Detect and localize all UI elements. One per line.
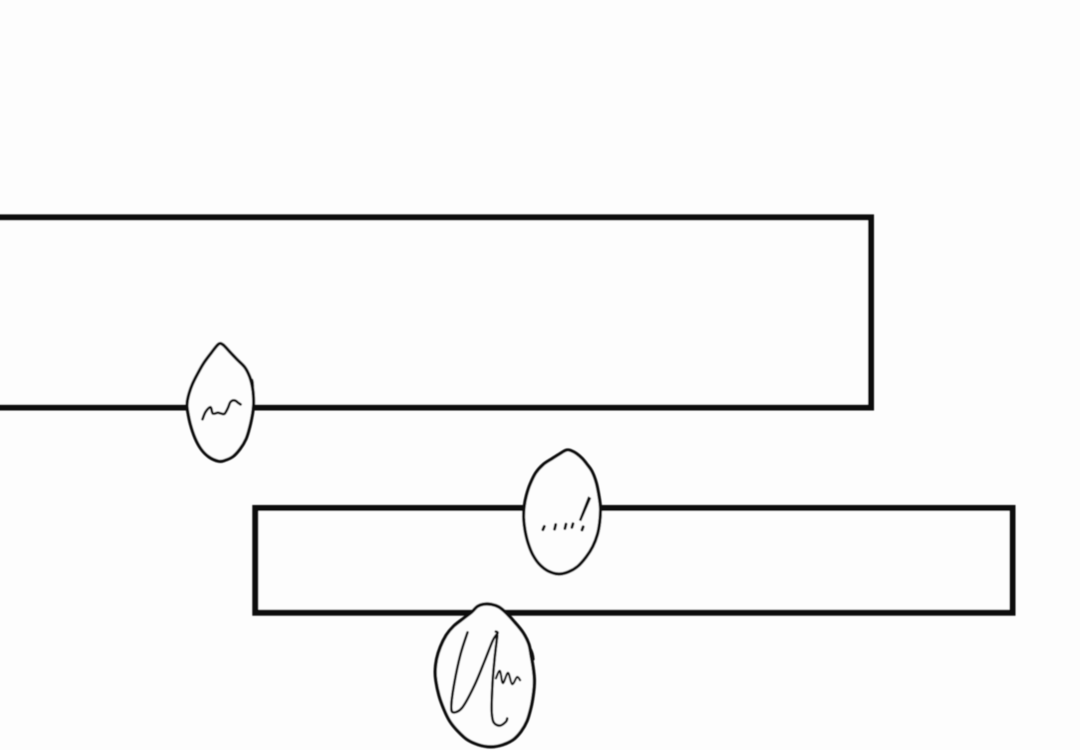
pen hook on right side of bubble B3	[530, 650, 533, 660]
text "....!" inside B2 : four dots	[543, 524, 573, 530]
panel 1 (top comic panel, left edge off-canvas)	[0, 217, 871, 407]
pen hook on right side of bubble B1	[251, 380, 254, 390]
speech bubble B2 ("....!" bubble over panel 2 top border)	[524, 450, 601, 574]
squiggle scribble text inside B1	[203, 400, 241, 419]
speech bubble B3 ("Um" bubble over panel 2 bottom border)	[435, 604, 534, 747]
cursive "Um" text in B3 : U left arc stroke	[451, 632, 497, 713]
speech bubble B1 (squiggle bubble over panel 1 bottom border)	[187, 343, 254, 461]
cursive "m" zigzag text in B3	[496, 671, 520, 684]
cursive "Um" text in B3 : U right descender stroke	[492, 636, 508, 726]
panel 2 (lower comic panel)	[255, 508, 1012, 613]
exclamation mark stroke in B2 (tapered slant)	[579, 496, 591, 530]
